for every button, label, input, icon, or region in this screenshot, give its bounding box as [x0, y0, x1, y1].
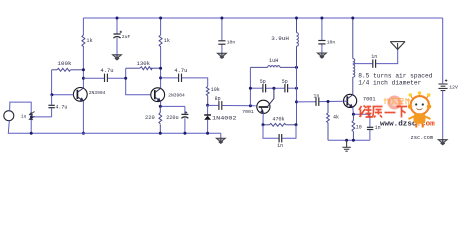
resistor R4 130k feedback stage2 [126, 67, 161, 70]
capacitor C1 4.7u stage1 output [105, 74, 108, 82]
capacitor C6 8p coupling to oscillator [219, 101, 222, 110]
node tank left bottom [249, 87, 252, 90]
diode D1 1N4002 varactor [204, 105, 211, 133]
label + polarity (C3) [120, 31, 122, 33]
node R8 top junction [327, 100, 330, 103]
svg-text:10n: 10n [327, 39, 336, 45]
microphone MIC1 electret [4, 102, 221, 133]
capacitor C8 5p tank [263, 84, 266, 92]
svg-text:1k: 1k [164, 38, 170, 44]
capacitor C14 1n emitter bypass [367, 127, 373, 129]
capacitor C7 10n rail decoupling 1 [221, 18, 223, 53]
svg-text:1uH: 1uH [269, 58, 278, 64]
svg-text:10n: 10n [227, 40, 236, 46]
node Q4 emitter junction [352, 113, 355, 116]
svg-text:1n: 1n [371, 54, 377, 60]
wire Q1 emitter to ground rail [82, 101, 84, 133]
ground rail end + ground symbol left [220, 133, 222, 138]
ground (C7) [217, 53, 226, 59]
resistor R6 10k [206, 87, 209, 106]
node oscillator base/tank junction [249, 104, 252, 107]
wire tank bottom with caps [250, 87, 296, 89]
wire 130k corner down to Q2 base [126, 68, 151, 95]
node Q2 collector/C4 junction [159, 76, 162, 79]
ground (left rail) [216, 138, 225, 144]
svg-text:1u: 1u [21, 114, 27, 120]
svg-text:4.7u: 4.7u [100, 67, 113, 74]
ground (C12) [317, 53, 326, 59]
wire tank left vertical [249, 67, 251, 105]
inductor L2 3.9uH RFC [297, 18, 299, 67]
svg-text:4k: 4k [333, 115, 339, 121]
svg-text:220u: 220u [166, 115, 178, 121]
wire Q1 base [52, 94, 74, 96]
node Q2 rail junction [159, 17, 162, 20]
svg-text:1n: 1n [313, 93, 319, 99]
svg-text:3.9uH: 3.9uH [271, 35, 289, 42]
ground (buffer) [342, 140, 350, 151]
capacitor C2 4.7u mic coupling (vertical) [48, 105, 54, 107]
svg-text:1/4 inch diameter: 1/4 inch diameter [358, 80, 421, 87]
svg-text:1N4002: 1N4002 [212, 116, 237, 122]
svg-text:100k: 100k [57, 60, 72, 67]
node mic element at ground rail [30, 132, 33, 135]
capacitor C10 1n emitter bypass loop [263, 125, 296, 138]
svg-text:220: 220 [145, 115, 155, 121]
battery BT1 12V [438, 84, 447, 91]
svg-text:8.5 turns air spaced: 8.5 turns air spaced [358, 72, 433, 79]
node Q1 collector/C out junction [82, 77, 85, 80]
wire right rail drop to battery [442, 18, 444, 83]
transistor Q4 7001 buffer [344, 94, 357, 108]
resistor R7 470k emitter [263, 123, 296, 126]
wire Q4 base lead [344, 100, 348, 102]
wire buffer ground mini rail [328, 139, 370, 141]
resistor R8 4k base bias buffer [327, 102, 330, 141]
capacitor C3 2uF rail decoupling [116, 18, 118, 55]
svg-text:2N3904: 2N3904 [89, 90, 106, 96]
node Q1 collector/100k junction [82, 68, 85, 71]
node tank right top [295, 66, 298, 69]
node Q2 collector/130k junction [159, 67, 162, 70]
resistor R3 1k stage2 collector [159, 35, 162, 47]
node R5 at rail [159, 132, 162, 135]
node tank right bottom [295, 87, 298, 90]
watermark dzsc.com [359, 91, 435, 141]
svg-text:12V: 12V [449, 85, 458, 91]
wire Q4 emitter [353, 108, 370, 141]
capacitor C13 1n antenna coupling [353, 50, 398, 64]
svg-text:2N3904: 2N3904 [168, 92, 185, 98]
node emitter net right [295, 123, 298, 126]
transistor Q1 2N3904 [73, 88, 87, 102]
capacitor C9 5p tank [285, 84, 288, 92]
node mini rail ground stub [345, 139, 348, 142]
inductor L3 8.5 turns air coil [353, 18, 355, 95]
svg-text:470k: 470k [272, 117, 284, 123]
ground (2uF) [113, 54, 122, 60]
node oscillator output junction [295, 100, 298, 103]
svg-text:10: 10 [356, 124, 362, 130]
svg-text:5p: 5p [282, 79, 288, 85]
svg-text:4.7u: 4.7u [174, 67, 187, 74]
node D1 at rail [206, 132, 209, 135]
resistor R2 100k feedback stage1 [52, 68, 84, 71]
node C5 at rail [183, 132, 186, 135]
svg-text:2uF: 2uF [122, 34, 131, 40]
svg-text:7001: 7001 [363, 97, 376, 103]
node varactor junction [206, 104, 209, 107]
svg-text:8p: 8p [215, 96, 221, 102]
svg-text:1n: 1n [277, 143, 283, 149]
node R9 at mini rail [352, 139, 355, 142]
ground (battery) [438, 139, 447, 145]
antenna ANT1 [390, 42, 405, 50]
svg-text:5p: 5p [260, 79, 266, 85]
node 2uF at rail [116, 17, 119, 20]
wire RFC vertical continues [296, 67, 298, 124]
svg-text:1k: 1k [86, 38, 92, 44]
mic element arrows [29, 112, 34, 120]
wire battery negative lead [442, 91, 444, 140]
node L3 at rail [351, 17, 354, 20]
resistor R9 10 emitter [352, 114, 355, 140]
node Q1 base junction [50, 93, 53, 96]
capacitor C11 1n buffer coupling [297, 100, 344, 103]
wire Q2 collector drop [160, 18, 162, 88]
svg-text:7001: 7001 [242, 109, 254, 115]
node Q1 emitter at rail [82, 132, 85, 135]
node stage2 input junction [124, 77, 127, 80]
node C12 at rail [320, 17, 323, 20]
svg-text:zsc.com: zsc.com [411, 135, 434, 141]
svg-text:10k: 10k [211, 87, 220, 93]
node Q2 emitter junction [159, 105, 162, 108]
wire 100k corner to base node [51, 70, 53, 95]
wire Q2 emitter [160, 102, 185, 134]
polarity + (C5) [185, 111, 187, 113]
resistor R5 220 emitter [159, 106, 162, 133]
polarity + (BT1) [445, 79, 447, 81]
svg-text:www.dzsc.com: www.dzsc.com [380, 121, 435, 129]
capacitor C4 4.7u stage2 output [179, 74, 182, 82]
wire top supply rail [83, 17, 442, 19]
node emitter net left [262, 123, 265, 126]
node C7 at rail [220, 17, 223, 20]
node tank collector tap [272, 87, 275, 90]
inductor L1 1uH tank top [250, 66, 296, 68]
capacitor C12 10n rail decoupling 2 [321, 18, 323, 53]
resistor R1 1k stage1 collector [82, 35, 85, 47]
svg-text:130k: 130k [137, 60, 151, 67]
node L2 at rail [295, 17, 298, 20]
wire C1 leads [83, 77, 125, 79]
svg-text:4.7u: 4.7u [55, 105, 67, 111]
transistor Q2 2N3904 [151, 88, 165, 102]
mascot [408, 91, 432, 127]
capacitor C5 220u emitter bypass [181, 114, 188, 118]
wire left rail drop to Q1 collector [82, 18, 84, 35]
transistor Q3 7001 oscillator [257, 88, 274, 125]
